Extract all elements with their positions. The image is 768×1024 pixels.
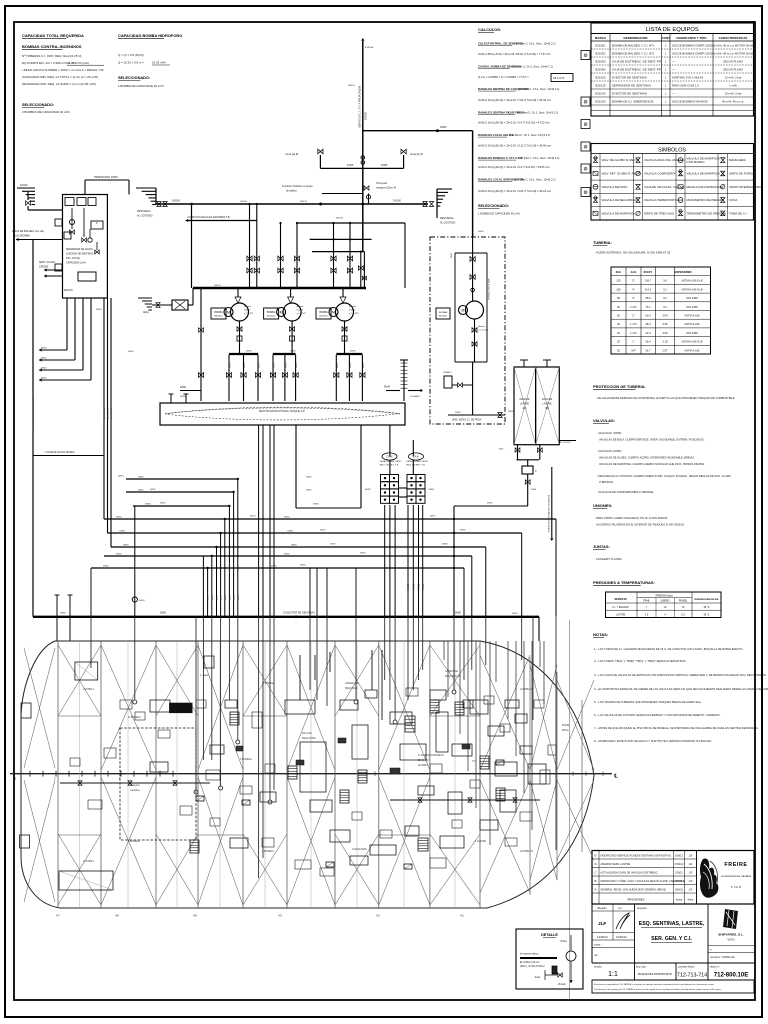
svg-text:VALV. RET. GLOBO R. RECTA: VALV. RET. GLOBO R. RECTA <box>602 171 642 175</box>
svg-text:DN65: DN65 <box>337 362 339 368</box>
svg-text:DENOMINACION: DENOMINACION <box>624 36 648 40</box>
hull equipment extra <box>70 688 556 876</box>
svg-text:CEBADO: CEBADO <box>443 371 452 374</box>
svg-text:3.18: 3.18 <box>662 340 668 344</box>
svg-text:BOMBAS CONTRA–INCENDIOS: BOMBAS CONTRA–INCENDIOS <box>22 44 82 49</box>
svg-text:d=25+1.68√(L+B·D) = 25+1.68: d=25+1.68√(L+B·D) = 25+1.68 √50.00 (7.5+… <box>478 52 552 56</box>
svg-text:DN65: DN65 <box>363 362 365 368</box>
svg-text:GRIFO DE TRES VIAS: GRIFO DE TRES VIAS <box>644 211 674 215</box>
svg-text:PIQUE: PIQUE <box>562 725 570 727</box>
svg-text:VALVULAS DE MARIPOSA, CUERPO H: VALVULAS DE MARIPOSA, CUERPO HIERRO NODU… <box>599 462 705 466</box>
svg-text:Ø Aire: Ø Aire <box>561 940 568 943</box>
svg-text:DN65: DN65 <box>138 490 144 492</box>
svg-text:88.9: 88.9 <box>645 296 651 300</box>
sounding pipe hydrophore tank fill <box>384 360 423 401</box>
sea chest port side <box>136 188 167 218</box>
svg-text:BOMBA DE C.I. EMERGENCIA: BOMBA DE C.I. EMERGENCIA <box>612 100 654 104</box>
svg-text:65: 65 <box>617 305 620 309</box>
svg-text:BOMBA DE BALDEO Y C.I. Nº2: BOMBA DE BALDEO Y C.I. Nº2 <box>612 52 654 56</box>
svg-text:JLF: JLF <box>689 864 693 866</box>
svg-text:4 BODEGA: 4 BODEGA <box>128 840 140 843</box>
svg-text:B02/120: B02/120 <box>64 290 73 292</box>
svg-text:40 m³/h, 45 m.c.a.: 40 m³/h, 45 m.c.a. <box>722 100 744 104</box>
svg-text:DN100: DN100 <box>348 85 356 87</box>
svg-text:16.33 m³/h: 16.33 m³/h <box>152 61 166 65</box>
svg-text:CAJA DISTRIB. SENT.: CAJA DISTRIB. SENT. <box>406 460 429 463</box>
svg-text:DN70: DN70 <box>320 530 326 532</box>
svg-text:OLEOSAS DE SENTINAS: OLEOSAS DE SENTINAS <box>66 253 94 256</box>
svg-text:100: 100 <box>616 287 621 291</box>
svg-text:ACTUALIZADA CAJAS DE VALVULAS: ACTUALIZADA CAJAS DE VALVULAS DISTRIBUC. <box>601 872 659 875</box>
hull compartment labels <box>83 670 570 863</box>
svg-text:1.– LAS TOMAS DE C.I. LLEVARAN: 1.– LAS TOMAS DE C.I. LLEVARAN MANGUERAS… <box>594 647 744 651</box>
svg-text:3.– LAS CAJAS DE VALVULAS DE S: 3.– LAS CAJAS DE VALVULAS DE SENTINAS CO… <box>594 673 767 677</box>
svg-text:DN100: DN100 <box>364 111 368 120</box>
svg-text:10 m³/h, 2 bar: 10 m³/h, 2 bar <box>725 76 742 80</box>
separator long drops <box>104 298 111 547</box>
svg-text:3.05: 3.05 <box>662 322 668 326</box>
hidroforo connection <box>85 175 129 195</box>
svg-text:B02/001: B02/001 <box>214 316 223 318</box>
hull piping runs <box>60 650 540 802</box>
svg-text:JLF: JLF <box>689 856 693 858</box>
svg-text:DN50: DN50 <box>208 594 210 600</box>
svg-text:DN65: DN65 <box>271 566 277 568</box>
svg-text:CUADRO: CUADRO <box>418 764 428 767</box>
svg-text:5.– LOS TRAMOS DE TUBERIAS QUE: 5.– LOS TRAMOS DE TUBERIAS QUE ATRAVIESE… <box>594 700 702 704</box>
detail box escala <box>516 929 583 989</box>
svg-text:DN80: DN80 <box>180 387 187 389</box>
svg-text:CAPACIDAD BOMBA HIDROFORO: CAPACIDAD BOMBA HIDROFORO <box>118 33 182 38</box>
svg-text:y C.I. Nº3: y C.I. Nº3 <box>349 312 359 315</box>
svg-text:DN80: DN80 <box>60 613 66 615</box>
svg-text:SENT. AGUAS: SENT. AGUAS <box>39 261 55 264</box>
svg-text:BOMBA: BOMBA <box>267 311 276 314</box>
svg-text:2 BOMBAS DE CAPACIDAD 40 m³/h: 2 BOMBAS DE CAPACIDAD 40 m³/h <box>22 110 70 114</box>
svg-text:DN70: DN70 <box>430 516 436 518</box>
svg-text:maniobra: maniobra <box>130 790 140 792</box>
svg-text:B: B <box>595 879 597 883</box>
table lista de equipos <box>591 23 754 116</box>
svg-text:SEGUN PLANO: SEGUN PLANO <box>723 60 743 64</box>
sea water crossover main <box>156 199 428 206</box>
svg-text:Nº TOBERAS C.I. INST. REQ. Req: Nº TOBERAS C.I. INST. REQ. Req=(2.25 N) <box>22 54 81 58</box>
svg-text:DN65: DN65 <box>451 252 453 258</box>
svg-text:DN100: DN100 <box>393 199 402 203</box>
svg-text:(SV. Part C, Ch.1, Secc. 10=[3: (SV. Part C, Ch.1, Secc. 10=[3.2.1] <box>514 42 555 46</box>
tank bottom drops <box>259 425 361 617</box>
svg-text:fecha: fecha <box>676 898 683 902</box>
svg-text:1 1/4": 1 1/4" <box>630 331 637 335</box>
svg-text:DN50: DN50 <box>238 594 240 600</box>
svg-text:34.0 m³/h: 34.0 m³/h <box>553 76 565 80</box>
svg-text:⚙: ⚙ <box>583 100 588 106</box>
svg-text:dibujado: dibujado <box>597 906 607 910</box>
svg-text:TRAB.: TRAB. <box>643 600 650 603</box>
svg-text:TUBERIA:: TUBERIA: <box>593 240 612 245</box>
svg-text:AGUA DE: AGUA DE <box>542 398 553 401</box>
forward pipe drop bundle <box>444 641 544 845</box>
svg-text:DN50: DN50 <box>139 600 145 602</box>
sea chest aft <box>17 184 63 210</box>
svg-text:firma: firma <box>688 898 694 902</box>
svg-text:CALCULOS:: CALCULOS: <box>478 27 501 32</box>
svg-text:AZCUE BOMBAS CM/EP-100/26: AZCUE BOMBAS CM/EP-100/26 <box>672 44 714 48</box>
note capacidad total requerida <box>22 33 104 114</box>
svg-text:DN200: DN200 <box>172 199 181 203</box>
note notas <box>593 632 768 743</box>
svg-text:B02/003: B02/003 <box>596 60 606 64</box>
svg-text:3/4": 3/4" <box>631 348 636 352</box>
svg-text:VALVULA DE PASO: VALVULA DE PASO <box>602 185 629 189</box>
svg-text:DN100: DN100 <box>336 218 344 220</box>
bilge suction branch lines <box>91 477 556 568</box>
svg-text:JLF: JLF <box>689 873 693 875</box>
svg-text:ASPIRACION DE MAR: ASPIRACION DE MAR <box>488 278 491 300</box>
svg-text:60.3: 60.3 <box>645 314 651 318</box>
svg-text:comp.:: comp.: <box>594 944 602 947</box>
svg-text:80: 80 <box>617 296 620 300</box>
svg-text:REJILLA (DE ASPIRACION): REJILLA (DE ASPIRACION) <box>687 185 724 189</box>
svg-text:(SV. Part C, Ch.1, Secc. 10=[3: (SV. Part C, Ch.1, Secc. 10=[3.2.1] <box>517 111 558 115</box>
svg-text:3 BODEGA: 3 BODEGA <box>262 850 274 853</box>
svg-text:LLENADO: LLENADO <box>410 395 421 398</box>
emergency fire pump unit enclosure <box>430 237 505 424</box>
note juntas <box>593 544 622 561</box>
overboard discharge starboard <box>423 189 456 225</box>
svg-text:HIDROFORO DN25: HIDROFORO DN25 <box>94 175 118 179</box>
table simbolos <box>591 144 763 221</box>
junction with level switch <box>132 506 145 617</box>
svg-text:JLF: JLF <box>689 890 693 892</box>
svg-text:5": 5" <box>632 279 634 283</box>
svg-text:MAQUI.PPAL: MAQUI.PPAL <box>302 737 317 740</box>
pump suction header <box>193 287 366 290</box>
svg-text:MARCA: MARCA <box>595 36 607 40</box>
svg-text:38 °C: 38 °C <box>703 606 709 609</box>
svg-text:DN65: DN65 <box>440 125 447 129</box>
svg-text:DN65: DN65 <box>138 477 144 479</box>
svg-text:B02/004: B02/004 <box>596 68 606 72</box>
svg-text:O BRONCE.: O BRONCE. <box>599 480 614 484</box>
svg-text:SERVICIO C.I. 2½" A PROA DN10: SERVICIO C.I. 2½" A PROA DN100 <box>358 85 362 128</box>
svg-text:TERMOMETRO DE PRESION: TERMOMETRO DE PRESION <box>687 211 727 215</box>
fire and ballast pumps <box>211 288 359 353</box>
svg-text:ref.:: ref.: <box>594 953 599 957</box>
title block drawing title <box>637 904 708 963</box>
svg-text:PARA TUBOS, ACERO SOLDADAS; PN: PARA TUBOS, ACERO SOLDADAS; PN 16, S/ DI… <box>596 516 668 520</box>
svg-text:LASTRE: LASTRE <box>616 613 626 616</box>
hydrophore hose takeoff <box>282 183 396 204</box>
svg-text:de espesor adecu.: de espesor adecu. <box>520 954 539 956</box>
svg-text:3.2: 3.2 <box>663 296 667 300</box>
svg-text:SENT.: SENT. <box>429 489 436 491</box>
svg-text:DN50: DN50 <box>407 583 410 590</box>
svg-text:DN65: DN65 <box>478 231 484 233</box>
separator outlet cascade to hull <box>39 298 91 382</box>
svg-text:DN40: DN40 <box>41 358 47 360</box>
svg-text:ASTM A-106: ASTM A-106 <box>684 348 700 352</box>
cascade right corner drops <box>310 519 556 617</box>
svg-text:toma (a) Ø: toma (a) Ø <box>285 152 298 156</box>
tank top valve stems <box>198 288 365 401</box>
svg-text:TEMPERATURA DE DIS.: TEMPERATURA DE DIS. <box>694 598 719 601</box>
svg-text:26.7: 26.7 <box>645 348 651 352</box>
svg-text:M: M <box>462 309 465 313</box>
svg-text:VALVULAS DE GLOBO, CUERPO ACER: VALVULAS DE GLOBO, CUERPO ACERO, INTERIO… <box>599 456 695 460</box>
svg-text:1 m³/h: 1 m³/h <box>729 84 737 88</box>
svg-text:UNID. MOVIL C.I. DE PROA: UNID. MOVIL C.I. DE PROA <box>452 419 482 422</box>
discharge manifold bars <box>229 353 363 355</box>
svg-text:DN125: DN125 <box>300 201 308 203</box>
svg-text:ASTM A-106: ASTM A-106 <box>684 322 700 326</box>
svg-text:EL NIVEL A 40 mm: EL NIVEL A 40 mm <box>520 961 540 964</box>
svg-text:AGUA DE: AGUA DE <box>519 398 530 401</box>
svg-text:DN70: DN70 <box>250 516 256 518</box>
svg-text:DN65: DN65 <box>350 351 356 353</box>
svg-text:(Er): (Er) <box>523 408 527 410</box>
svg-text:PROTECCION DE TUBERIA:: PROTECCION DE TUBERIA: <box>593 384 646 389</box>
svg-text:VALV. DE RET. Y B: VALV. DE RET. Y B <box>380 464 399 467</box>
svg-text:LASTRE 2: LASTRE 2 <box>83 860 95 863</box>
svg-text:4": 4" <box>632 287 634 291</box>
svg-text:139.7: 139.7 <box>645 279 652 283</box>
svg-text:EYECTOR DE SENTINAS: EYECTOR DE SENTINAS <box>612 76 647 80</box>
svg-text:BOMBA: BOMBA <box>439 311 447 314</box>
svg-text:–VALVULAS DE COMPUERTA/BOLA: B: –VALVULAS DE COMPUERTA/BOLA: BRONCE. <box>597 490 654 494</box>
svg-text:DN40: DN40 <box>41 368 47 370</box>
svg-text:DN50: DN50 <box>234 594 236 600</box>
svg-text:This drawing is the property o: This drawing is the property of C.N. FRE… <box>594 988 722 991</box>
freire shipyard logo <box>700 859 752 898</box>
svg-text:GRIFO DE PURGA: GRIFO DE PURGA <box>729 171 754 175</box>
svg-text:de baldeo: de baldeo <box>286 190 297 193</box>
svg-text:—: — <box>672 68 675 72</box>
hull frame labels <box>56 914 464 918</box>
svg-text:MANOMETRO DE PRESION: MANOMETRO DE PRESION <box>687 198 725 202</box>
svg-text:SENTINA SEP.: SENTINA SEP. <box>110 406 113 420</box>
seaplace engineering logo <box>708 909 754 959</box>
svg-text:38 °C: 38 °C <box>703 613 709 616</box>
svg-text:d=25+2.16√(L₁(B+D)) = 25+2.1: d=25+2.16√(L₁(B+D)) = 25+2.16 √3.64 (7.5… <box>478 189 552 193</box>
svg-text:DESCARGA: DESCARGA <box>440 217 454 220</box>
svg-text:B02/200: B02/200 <box>596 100 606 104</box>
svg-text:CARACTERISTICAS: CARACTERISTICAS <box>719 36 748 40</box>
svg-text:d=25+2.16√(L₁(B+D)) = 25+2.1: d=25+2.16√(L₁(B+D)) = 25+2.16 √7.64 (7.5… <box>478 98 552 102</box>
svg-text:D: D <box>594 862 596 866</box>
svg-text:KLINGERIT O GOMA: KLINGERIT O GOMA <box>596 557 622 561</box>
svg-text:SELECCIONADO:: SELECCIONADO: <box>22 103 54 107</box>
svg-text:(SV. Part C, Ch.1, Secc. 10=[4: (SV. Part C, Ch.1, Secc. 10=[4.7.1] <box>512 65 553 69</box>
svg-text:DN50: DN50 <box>225 594 227 600</box>
svg-text:13/09/12: 13/09/12 <box>597 935 608 939</box>
svg-text:DN65: DN65 <box>350 362 352 368</box>
svg-text:DESCARGA: DESCARGA <box>137 210 151 213</box>
svg-text:AGUJEROS TALADROS EN EL INTERI: AGUJEROS TALADROS EN EL INTERIOR DE TANQ… <box>596 523 684 527</box>
svg-text:RAMALES BODEGA C. Nº1 A Cº3:: RAMALES BODEGA C. Nº1 A Cº3: <box>478 156 523 160</box>
svg-text:AL COSTADO: AL COSTADO <box>137 215 153 218</box>
svg-text:–ACERO ESTIRADO, SIN SOLDADURA: –ACERO ESTIRADO, SIN SOLDADURA, S/ DIN 2… <box>595 251 671 255</box>
svg-text:CAJA DE DISTRIBUC. DE SENT. PP: CAJA DE DISTRIBUC. DE SENT. PP <box>612 68 661 72</box>
svg-text:–DESCARGAS AL COSTADO: CUERPO: –DESCARGAS AL COSTADO: CUERPO ACERO FUND… <box>597 474 731 478</box>
svg-text:(SV. Part C, Ch.1, Secc. 10=[3: (SV. Part C, Ch.1, Secc. 10=[3.2.1] <box>509 133 550 137</box>
svg-text:20: 20 <box>617 348 620 352</box>
svg-text:C.I. emerg.: C.I. emerg. <box>478 329 489 332</box>
title block revision table <box>592 851 754 905</box>
svg-text:⚙: ⚙ <box>583 53 588 59</box>
hull tank top lines <box>58 716 480 835</box>
svg-text:MODIFICADO Y AÑAD. CAJA Y VALV: MODIFICADO Y AÑAD. CAJA Y VALVULAS SEGUN… <box>601 880 686 883</box>
svg-text:ASTM A-106 Gr.B: ASTM A-106 Gr.B <box>681 340 702 344</box>
svg-text:A SERVICIO DE BALDEO CUBIERTA: A SERVICIO DE BALDEO CUBIERTA <box>548 495 551 532</box>
svg-text:baldeo: baldeo <box>297 310 304 312</box>
svg-text:⚙: ⚙ <box>583 145 588 151</box>
svg-text:B02/140: B02/140 <box>596 92 606 96</box>
svg-text:DN65: DN65 <box>300 565 306 567</box>
note calculos <box>478 27 590 216</box>
svg-text:DN40: DN40 <box>384 387 391 389</box>
svg-text:B02/...: B02/... <box>499 449 505 451</box>
svg-text:DN50: DN50 <box>221 594 223 600</box>
svg-text:32: 32 <box>617 331 620 335</box>
svg-text:NECESIDAD MIN. REQ. LA SUMA =: NECESIDAD MIN. REQ. LA SUMA = Q mn (2×25… <box>22 82 96 86</box>
svg-text:toma (b) Ø: toma (b) Ø <box>410 152 423 156</box>
svg-text:LISTA DE EQUIPOS: LISTA DE EQUIPOS <box>646 27 699 33</box>
svg-text:DN65: DN65 <box>290 351 296 353</box>
svg-text:CAJA DE DISTRIBUC. DE SENT. PR: CAJA DE DISTRIBUC. DE SENT. PR <box>612 60 661 64</box>
svg-text:Q = Qr × 0.9 (N)²×Q: Q = Qr × 0.9 (N)²×Q <box>118 53 145 57</box>
table tuberia dimensiones <box>611 267 711 354</box>
svg-text:CAPACIDAD MIN. REQ. LA TOTAL =: CAPACIDAD MIN. REQ. LA TOTAL = Q mn (2 ×… <box>22 75 98 79</box>
svg-text:V6: V6 <box>115 914 119 918</box>
ballast water tanks <box>514 360 576 445</box>
svg-text:VIGO: VIGO <box>727 938 735 942</box>
svg-text:40 m³/h, 45 m.c.a. MOTOR 30 kW: 40 m³/h, 45 m.c.a. MOTOR 30 kW <box>712 52 754 56</box>
svg-text:V2: V2 <box>376 914 380 918</box>
svg-text:3.05: 3.05 <box>662 331 668 335</box>
svg-text:1:1: 1:1 <box>608 971 618 978</box>
svg-text:DN50: DN50 <box>217 594 219 600</box>
svg-text:2": 2" <box>632 314 634 318</box>
svg-text:A SERVICIO DE AGUA SANITARIA T: A SERVICIO DE AGUA SANITARIA T.B. <box>187 216 231 219</box>
svg-text:PRESIONES & TEMPERATURAS:: PRESIONES & TEMPERATURAS: <box>593 580 655 585</box>
svg-text:2.– LAS TOMAS “TB(A)” y “TB(: 2.– LAS TOMAS “TB(A)” y “TB(B)” “TB(C)” … <box>594 659 687 663</box>
bilge suction drops into hull <box>91 617 556 878</box>
svg-text:3.6: 3.6 <box>663 279 667 283</box>
svg-text:DN50: DN50 <box>422 583 425 590</box>
svg-text:2.87: 2.87 <box>662 348 668 352</box>
svg-text:DN65: DN65 <box>116 517 122 519</box>
svg-text:FREIRE: FREIRE <box>724 862 747 868</box>
svg-text:V3: V3 <box>278 914 282 918</box>
svg-text:DN65: DN65 <box>313 504 319 506</box>
svg-text:C.I. Y BALDEO: C.I. Y BALDEO <box>612 606 629 609</box>
svg-text:baldeo: baldeo <box>349 310 356 312</box>
svg-text:CAJA DISTRIB. SENT.: CAJA DISTRIB. SENT. <box>380 460 403 463</box>
svg-text:A SU BOMBA: A SU BOMBA <box>14 234 30 238</box>
note uniones <box>593 503 684 527</box>
hull machinery and compartments <box>59 656 546 890</box>
svg-text:2 BODEGA: 2 BODEGA <box>240 758 252 761</box>
svg-text:Bomba: Bomba <box>244 306 252 308</box>
svg-text:JLF: JLF <box>689 881 693 883</box>
svg-text:B02/200: B02/200 <box>439 316 448 318</box>
svg-text:33.4: 33.4 <box>645 340 651 344</box>
hull centerline with scale <box>10 771 618 781</box>
svg-text:—: — <box>672 92 675 96</box>
svg-text:DN65: DN65 <box>347 164 354 167</box>
svg-text:DN80: DN80 <box>180 396 186 398</box>
svg-text:76.1: 76.1 <box>645 305 651 309</box>
svg-text:1 BOMBA DE CAPACIDAD 20 m³/h: 1 BOMBA DE CAPACIDAD 20 m³/h <box>118 84 164 88</box>
svg-text:M: M <box>227 311 230 315</box>
note tuberia <box>593 240 671 255</box>
svg-text:SEPARADOR DE AGUAS: SEPARADOR DE AGUAS <box>66 248 93 251</box>
svg-text:VALV. DE GLOBO R. RECTA: VALV. DE GLOBO R. RECTA <box>602 158 640 162</box>
svg-text:MAQUINILLAS: MAQUINILLAS <box>445 675 461 678</box>
svg-text:40: 40 <box>617 322 620 326</box>
svg-text:20/01/12: 20/01/12 <box>674 881 684 883</box>
sanitary water service header <box>186 216 257 222</box>
svg-text:d=25+2.16√(L₁(B+D)) = 25+2.1: d=25+2.16√(L₁(B+D)) = 25+2.16 √3.12 (7.5… <box>478 144 552 148</box>
svg-text:REVISIONES: REVISIONES <box>628 898 645 902</box>
svg-text:—: — <box>672 60 675 64</box>
svg-text:rev.: rev. <box>618 906 622 910</box>
svg-text:LASTRE 2: LASTRE 2 <box>83 688 95 691</box>
svg-text:A: A <box>595 888 597 892</box>
svg-text:4.– EL DISPOSITIVO ESPECIAL DE: 4.– EL DISPOSITIVO ESPECIAL DE CIERRE DE… <box>594 687 768 691</box>
svg-text:DN65: DN65 <box>284 517 290 519</box>
svg-text:Bomba: Bomba <box>297 306 305 308</box>
svg-text:C.MAQUINAS: C.MAQUINAS <box>352 848 367 851</box>
svg-text:Bomba: Bomba <box>349 306 357 308</box>
svg-text:s. carga: s. carga <box>200 675 209 677</box>
svg-text:3": 3" <box>632 296 634 300</box>
svg-text:4 LASTRE: 4 LASTRE <box>475 840 486 843</box>
svg-text:VALVULA DE SEGURIDAD: VALVULA DE SEGURIDAD <box>602 198 637 202</box>
svg-text:CON MANDO: CON MANDO <box>687 160 706 164</box>
svg-text:A PROA: A PROA <box>365 46 374 49</box>
rotated drop labels left <box>32 396 113 430</box>
svg-text:SEPARADOR DE SENTINAS: SEPARADOR DE SENTINAS <box>612 84 651 88</box>
svg-text:FABRICANTE Y TIPO: FABRICANTE Y TIPO <box>676 36 707 40</box>
svg-text:DN50: DN50 <box>487 503 493 505</box>
svg-text:DN65: DN65 <box>120 531 126 533</box>
svg-text:AZCUE BOMBAS VM-80/26: AZCUE BOMBAS VM-80/26 <box>672 100 708 104</box>
svg-text:DN65: DN65 <box>442 544 448 546</box>
svg-text:CANT: CANT <box>662 36 671 40</box>
svg-text:(SV. Part C, Ch.1, Secc. 10=[3: (SV. Part C, Ch.1, Secc. 10=[3.2.1] <box>518 87 559 91</box>
svg-text:DN50: DN50 <box>212 594 214 600</box>
svg-text:DN65: DN65 <box>103 566 109 568</box>
svg-text:10 m³/h, 2 bar: 10 m³/h, 2 bar <box>725 92 742 96</box>
svg-text:V5: V5 <box>193 914 197 918</box>
svg-text:–VALVULAS ≥DN50:: –VALVULAS ≥DN50: <box>597 449 622 453</box>
svg-text:℄: ℄ <box>613 774 618 780</box>
svg-text:⚙: ⚙ <box>583 122 588 128</box>
manifold interconnections <box>390 425 413 497</box>
svg-text:Junta: Junta <box>534 976 540 979</box>
svg-text:contrato-barco: contrato-barco <box>678 965 695 969</box>
emergency unit lower fittings <box>443 362 505 422</box>
svg-text:PRESION (bar): PRESION (bar) <box>656 594 673 597</box>
svg-text:712-800.10E: 712-800.10E <box>714 973 748 979</box>
title block lower row <box>592 963 754 980</box>
svg-text:ASTM A-106: ASTM A-106 <box>684 314 700 318</box>
svg-text:VALVULA COMPUERTA: VALVULA COMPUERTA <box>644 171 676 175</box>
svg-text:VALVULAS:: VALVULAS: <box>593 418 615 423</box>
svg-text:NOTAS:: NOTAS: <box>593 632 608 637</box>
